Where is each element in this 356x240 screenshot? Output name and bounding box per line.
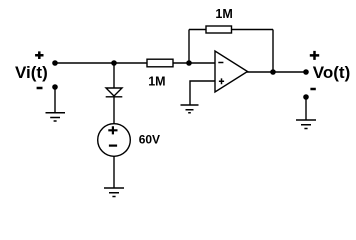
ground GND4 <box>296 120 316 129</box>
Vi plus sign <box>35 51 43 59</box>
V1 minus sign <box>109 145 117 147</box>
wire Vi minus to ground <box>54 87 56 113</box>
wire source to ground <box>113 156 115 188</box>
op-amp U1 <box>215 51 248 92</box>
op-amp inverting pin sign <box>218 62 223 64</box>
wire feedback left vertical <box>188 30 190 64</box>
voltage source V1 <box>98 124 131 157</box>
node Vi minus terminal <box>52 84 58 90</box>
svg-text:Vi(t): Vi(t) <box>15 63 48 82</box>
Vo minus sign <box>310 88 315 91</box>
V1 plus sign <box>108 126 117 134</box>
node diode junction <box>111 60 117 66</box>
wire input node to R1 <box>55 62 147 64</box>
wire R1 to op-amp inverting input <box>173 62 215 64</box>
Vi minus sign <box>37 87 43 90</box>
wire Vo minus to ground <box>305 97 307 120</box>
wire diode to source <box>113 97 115 124</box>
svg-text:Vo(t): Vo(t) <box>313 63 350 82</box>
svg-text:1M: 1M <box>215 7 232 21</box>
diode D1 cathode bar <box>106 96 123 98</box>
op-amp noninverting pin sign <box>219 78 224 84</box>
svg-text:60V: 60V <box>139 133 160 147</box>
wire noninverting input <box>190 81 215 105</box>
resistor R2 feedback <box>206 26 232 33</box>
ground GND1 <box>46 113 66 121</box>
node Vo minus terminal <box>303 94 309 100</box>
node inverting input junction <box>186 60 192 66</box>
wire feedback right vertical <box>272 30 274 73</box>
svg-text:1M: 1M <box>148 74 165 88</box>
wire feedback top left <box>189 29 206 31</box>
node output junction <box>270 69 276 75</box>
resistor R1 <box>147 59 173 67</box>
diode D1 <box>106 88 122 96</box>
node Vi plus terminal <box>52 60 58 66</box>
node Vo plus terminal <box>303 69 309 75</box>
ground GND2 <box>181 105 199 113</box>
wire diode branch top <box>113 63 115 88</box>
wire output <box>247 71 306 73</box>
ground GND3 <box>104 188 124 197</box>
wire feedback top right <box>232 29 274 31</box>
Vo plus sign <box>310 51 319 60</box>
